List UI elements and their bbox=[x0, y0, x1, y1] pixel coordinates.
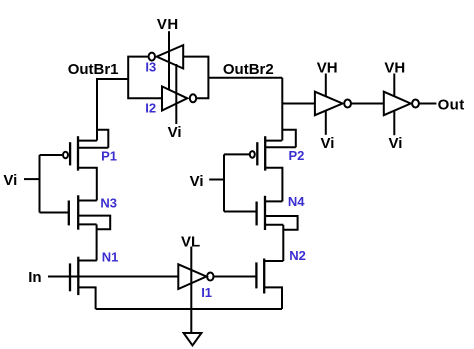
svg-text:Vi: Vi bbox=[389, 135, 403, 152]
svg-text:Vi: Vi bbox=[3, 172, 17, 189]
svg-text:N2: N2 bbox=[289, 248, 306, 263]
svg-text:Vi: Vi bbox=[190, 173, 204, 190]
svg-text:P2: P2 bbox=[289, 148, 305, 163]
svg-text:I2: I2 bbox=[145, 101, 156, 116]
svg-text:N1: N1 bbox=[102, 250, 119, 265]
svg-text:Out: Out bbox=[438, 97, 465, 114]
svg-text:N3: N3 bbox=[100, 196, 117, 211]
svg-text:I3: I3 bbox=[145, 60, 156, 75]
svg-text:VL: VL bbox=[181, 234, 200, 251]
svg-text:OutBr1: OutBr1 bbox=[68, 61, 119, 78]
svg-text:VH: VH bbox=[157, 16, 179, 33]
svg-text:OutBr2: OutBr2 bbox=[223, 61, 274, 78]
svg-text:VH: VH bbox=[384, 59, 405, 76]
svg-text:In: In bbox=[28, 269, 41, 286]
svg-text:I1: I1 bbox=[201, 285, 212, 300]
svg-text:P1: P1 bbox=[101, 149, 117, 164]
svg-text:Vi: Vi bbox=[168, 124, 182, 141]
svg-text:VH: VH bbox=[317, 59, 338, 76]
svg-text:N4: N4 bbox=[288, 194, 305, 209]
svg-text:Vi: Vi bbox=[321, 135, 335, 152]
